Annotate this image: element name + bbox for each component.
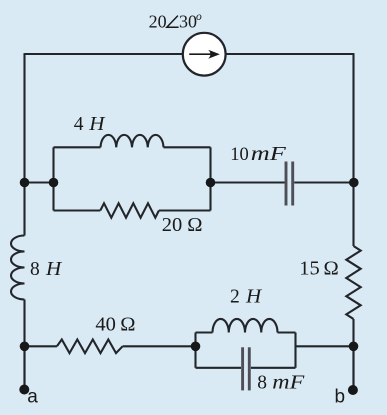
block2 top side left	[196, 331, 213, 333]
block1 bottom side left	[54, 209, 101, 211]
wire left vertical lower	[23, 300, 25, 391]
label 4 H	[74, 114, 106, 135]
block1 top side right	[164, 146, 211, 148]
wire top left	[25, 53, 183, 55]
label 15 ohm	[299, 257, 338, 279]
wire capacitor to right	[294, 181, 353, 183]
block1 left edge	[52, 147, 54, 210]
resistor 20ohm zigzag	[100, 203, 159, 217]
svg-text:15: 15	[299, 257, 320, 279]
wire bottom left stub	[25, 345, 57, 347]
wire right vertical lower	[352, 319, 354, 390]
block2 bottom side left	[196, 367, 242, 369]
wire terminal b drop	[352, 346, 354, 390]
node dot right-mid main	[349, 178, 359, 188]
wire left vertical upper	[23, 53, 25, 235]
svg-text:o: o	[196, 11, 202, 23]
svg-text:H: H	[88, 114, 105, 135]
wire bottom middle	[123, 345, 196, 347]
svg-text:b: b	[335, 386, 346, 407]
svg-text:H: H	[245, 286, 262, 307]
svg-text:40: 40	[95, 314, 116, 336]
node dot bottom left	[20, 342, 30, 352]
svg-text:10: 10	[230, 145, 249, 165]
inductor 4H coil	[101, 135, 164, 147]
capacitor 8mF plates	[243, 347, 250, 390]
wire bottom right	[296, 345, 354, 347]
block2 left edge	[194, 333, 196, 368]
svg-text:2: 2	[230, 286, 240, 307]
terminal b dot	[348, 385, 358, 395]
wire middle left stub	[25, 181, 54, 183]
svg-text:30: 30	[179, 12, 197, 32]
svg-text:4: 4	[74, 114, 84, 135]
label 10 mF	[230, 144, 287, 165]
block1 top side left	[54, 146, 101, 148]
svg-text:mF: mF	[251, 144, 287, 165]
block2 bottom side right	[251, 367, 296, 369]
node dot left-mid main	[20, 178, 30, 188]
block2 top side right	[278, 331, 296, 333]
svg-text:H: H	[45, 259, 62, 280]
block1 bottom side right	[159, 209, 211, 211]
svg-text:8: 8	[257, 373, 267, 394]
node dot block1 right	[206, 178, 216, 188]
label 20 angle 30 deg	[149, 11, 202, 32]
capacitor 10mF plates	[286, 162, 293, 206]
inductor 2H coil	[213, 319, 278, 333]
label 8 mF	[257, 373, 305, 394]
block2 right edge	[294, 333, 296, 368]
svg-text:a: a	[27, 386, 38, 407]
current source arrow	[189, 50, 220, 59]
svg-text:Ω: Ω	[120, 314, 135, 336]
label 40 ohm	[95, 314, 135, 336]
svg-text:mF: mF	[272, 373, 305, 394]
node dot bottom right	[349, 342, 359, 352]
svg-text:Ω: Ω	[324, 257, 339, 279]
resistor 40ohm zigzag	[57, 340, 123, 354]
wire terminal a drop	[23, 346, 25, 389]
node dot block2 left	[191, 342, 201, 352]
label 8 H	[30, 259, 62, 280]
label 20 ohm	[162, 214, 203, 236]
resistor 15ohm zigzag	[346, 246, 360, 319]
current source I1 circle	[183, 33, 226, 76]
wire top right	[226, 53, 354, 55]
node dot block1 left	[49, 178, 59, 188]
svg-text:Ω: Ω	[187, 214, 202, 236]
label 2 H	[230, 286, 262, 307]
wire middle to capacitor	[211, 181, 285, 183]
svg-text:8: 8	[30, 259, 40, 280]
block1 right edge	[209, 147, 211, 210]
svg-text:20: 20	[162, 214, 183, 236]
terminal a dot	[19, 385, 29, 395]
inductor 8H coil	[11, 236, 25, 300]
svg-text:20: 20	[149, 12, 167, 32]
wire right vertical upper	[352, 53, 354, 246]
